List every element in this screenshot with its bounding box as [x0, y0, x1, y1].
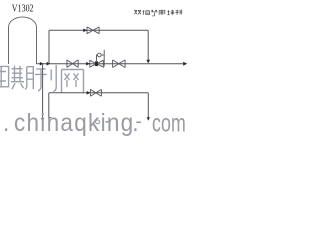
flange bar right of control valve	[103, 50, 105, 67]
control valve actuator circle	[98, 53, 102, 57]
valve A (gate valve, main line)	[67, 60, 78, 68]
right header top vertical	[147, 30, 149, 60]
label V1302	[12, 3, 34, 14]
lower branch left drop leg	[49, 93, 52, 118]
control valve body (solid center)	[90, 60, 104, 67]
svg-text:com: com	[152, 108, 186, 137]
valve B (gate valve, main line right)	[113, 60, 126, 68]
arrow down to bottom line	[147, 117, 150, 121]
flow arrow top line	[83, 29, 87, 33]
lower branch line	[49, 92, 148, 94]
watermark 网	[62, 70, 84, 94]
flow arrow 2 on main line	[47, 62, 51, 66]
junction arrow into main line	[146, 60, 150, 64]
drain vertical from main line	[42, 64, 44, 118]
watermark 刊	[35, 65, 56, 92]
title 双调节阀控制 (drawn strokes)	[134, 10, 181, 16]
main line (middle branch)	[37, 63, 186, 65]
control valve actuator stem	[97, 55, 98, 61]
drain arrow	[41, 118, 44, 121]
watermark stray mark on k	[95, 120, 99, 124]
outlet arrow main line	[183, 62, 187, 66]
svg-text:.chinaqking.: .chinaqking.	[3, 109, 138, 137]
svg-text:V1302: V1302	[12, 3, 34, 14]
right lower vertical	[147, 93, 149, 118]
valve D (lower branch valve)	[90, 89, 101, 96]
flow arrow lower branch	[87, 91, 91, 95]
watermark 国 (partial)	[0, 66, 9, 88]
flow arrow 1 on main line	[40, 62, 44, 66]
left header vertical	[48, 30, 50, 63]
flow arrow 3 before control valve	[86, 62, 90, 66]
watermark 期	[11, 66, 33, 90]
tank V1302 vessel	[9, 17, 37, 64]
watermark stray dash 2	[136, 121, 141, 123]
watermark chinaqking.com	[3, 109, 138, 137]
watermark stray dash 1	[105, 121, 109, 123]
valve C (bypass valve)	[87, 27, 99, 34]
actuator link to flange	[101, 54, 104, 56]
top bypass line	[49, 29, 148, 31]
